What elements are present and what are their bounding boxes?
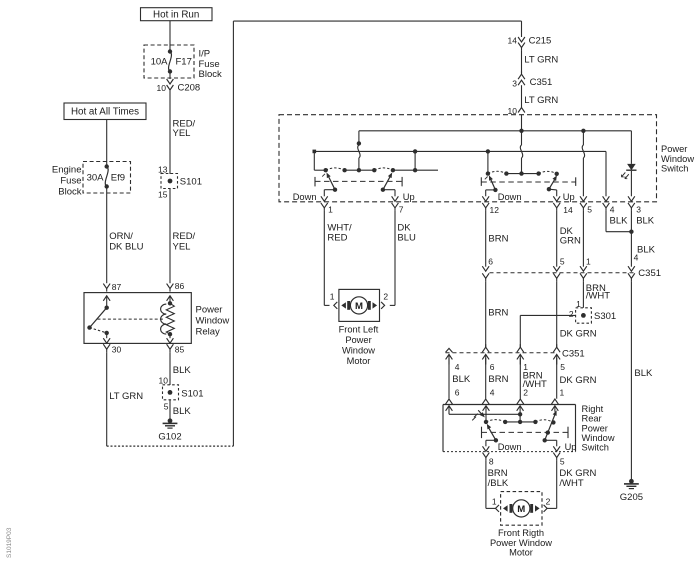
svg-text:5: 5 <box>560 457 565 467</box>
svg-text:6: 6 <box>455 387 460 397</box>
wire BRN from C351-6 to lower C351-6 <box>485 281 487 347</box>
power window relay K box <box>84 293 191 344</box>
wire BLK from S101 to ground G102 <box>169 400 171 421</box>
rear switch pin 8 connector <box>483 453 490 458</box>
svg-text:4: 4 <box>455 362 460 372</box>
relay pin 85 connector <box>167 344 174 349</box>
svg-text:C351: C351 <box>638 268 661 279</box>
svg-text:Down: Down <box>293 192 317 202</box>
svg-text:1: 1 <box>492 496 497 506</box>
left switch rocker bracket <box>314 177 316 187</box>
in-line connector C351 (lower dashed line) <box>446 352 558 354</box>
svg-text:Block: Block <box>199 69 222 80</box>
svg-text:BLK: BLK <box>173 365 192 376</box>
switch pin 1 connector <box>321 203 328 208</box>
svg-text:BRN: BRN <box>488 234 508 245</box>
wire DK GRN pin14 to C351 pin 5 <box>556 211 558 267</box>
wire BRN pin12 to C351 pin 6 <box>485 211 487 267</box>
svg-text:4: 4 <box>490 387 495 397</box>
svg-text:G205: G205 <box>620 492 643 503</box>
svg-text:GRN: GRN <box>560 236 581 247</box>
svg-text:4: 4 <box>610 205 615 215</box>
svg-text:BRN: BRN <box>488 374 508 385</box>
wire: line2 right end down to switch pin 4 <box>605 151 607 196</box>
relay coil (pin 86 to pin 85) <box>167 296 174 301</box>
relay actuation dashed link <box>98 318 165 320</box>
svg-text:86: 86 <box>175 281 185 291</box>
left switch Up wiper <box>383 176 391 190</box>
svg-text:Power: Power <box>661 144 687 154</box>
svg-text:Window: Window <box>661 154 694 164</box>
svg-text:10A: 10A <box>151 56 169 67</box>
svg-text:Down: Down <box>498 442 522 452</box>
svg-text:BLK: BLK <box>634 368 653 379</box>
rear switch pin 4 wire to contact <box>483 406 490 411</box>
wire: line2 drop to right switch left contact <box>487 151 489 173</box>
wire LT GRN from relay pin 30 <box>106 352 108 446</box>
in-line connector C351 (upper dashed line) <box>490 272 635 274</box>
svg-text:YEL: YEL <box>173 241 191 252</box>
svg-text:6: 6 <box>490 362 495 372</box>
svg-text:Hot in Run: Hot in Run <box>153 9 199 20</box>
svg-text:Ef9: Ef9 <box>111 172 125 183</box>
svg-text:S101: S101 <box>180 176 202 187</box>
power window switch pin 10 entry <box>518 108 525 113</box>
bus line 1 (battery feed inside switch) <box>359 130 632 132</box>
svg-text:Down: Down <box>498 192 522 202</box>
rear switch Up wiper <box>545 412 556 440</box>
wire BLK pin3 to C351 pin 4 <box>630 211 632 267</box>
svg-text:4: 4 <box>634 252 639 262</box>
wire: line1 left drop to left switch center contact <box>358 131 360 144</box>
svg-text:S1019P03: S1019P03 <box>6 527 13 558</box>
switch pin 4 connector <box>603 203 610 208</box>
wire DK GRN from C351-5 to lower C351-5 <box>556 281 558 347</box>
svg-text:85: 85 <box>175 345 185 355</box>
svg-text:DK GRN: DK GRN <box>560 329 597 340</box>
svg-text:BLK: BLK <box>173 406 192 417</box>
svg-text:BLK: BLK <box>452 374 471 385</box>
svg-text:Switch: Switch <box>582 443 609 453</box>
rear switch feed wiper arrow <box>478 410 483 416</box>
svg-text:C215: C215 <box>529 35 552 46</box>
power source label: Hot at All Times <box>64 103 146 120</box>
svg-text:2: 2 <box>523 387 528 397</box>
rear switch rocker bracket <box>481 427 483 438</box>
svg-text:Block: Block <box>58 187 81 198</box>
svg-text:LT GRN: LT GRN <box>109 391 143 402</box>
LED illumination lamp in switch <box>630 131 632 164</box>
power source label: Hot in Run <box>141 8 213 21</box>
svg-text:10: 10 <box>157 83 167 93</box>
wire: top run to C215 <box>233 20 521 22</box>
connector C215 pin 14 <box>521 21 523 37</box>
wire LT GRN C351 to power window switch pin 10 <box>521 91 523 108</box>
svg-text:Power: Power <box>345 335 371 345</box>
svg-text:/WHT: /WHT <box>559 478 583 489</box>
wire: line2 drop at x=415 to row <box>414 151 416 170</box>
svg-text:Hot at All Times: Hot at All Times <box>71 107 139 118</box>
wire BLK from C351-4 to ground G205 <box>630 281 632 481</box>
svg-text:Rear: Rear <box>582 414 602 424</box>
wire BRN lower-C351-6 to rear switch pin 4 <box>485 358 487 399</box>
svg-text:30A: 30A <box>87 172 105 183</box>
svg-text:15: 15 <box>158 189 168 199</box>
relay switch contact (pin 87 to pin 30) <box>103 296 110 301</box>
wire DK GRN/WHT pin5 to front right motor <box>556 461 558 509</box>
svg-text:5: 5 <box>164 401 169 411</box>
node: junction of pin4 and pin3 BLK wires <box>629 230 633 234</box>
svg-text:5: 5 <box>587 205 592 215</box>
svg-text:1: 1 <box>586 256 591 266</box>
svg-text:5: 5 <box>560 362 565 372</box>
svg-text:1: 1 <box>560 387 565 397</box>
svg-text:5: 5 <box>560 256 565 266</box>
right switch rocker bracket <box>480 177 482 186</box>
svg-text:13: 13 <box>158 164 168 174</box>
wire LT GRN C215 to C351 <box>521 51 523 74</box>
svg-text:S301: S301 <box>594 311 616 322</box>
lower C351 pin 6 <box>482 347 489 352</box>
svg-text:7: 7 <box>399 205 404 215</box>
svg-text:14: 14 <box>563 205 573 215</box>
svg-text:10: 10 <box>159 375 169 385</box>
wire DK BLU pin7 to front left motor <box>394 211 396 306</box>
switch pin 5 connector <box>580 203 587 208</box>
right rear power window switch box <box>443 404 576 406</box>
svg-text:Front Left: Front Left <box>339 325 379 335</box>
lower C351 pin 5 <box>553 347 560 352</box>
wire: line1 drop to switch pin 5 <box>582 131 584 145</box>
left switch Down wiper <box>328 176 335 190</box>
svg-text:Engine: Engine <box>52 164 82 175</box>
rear switch pin 2 wire to center contact <box>517 406 524 411</box>
wire: bottom run of LT GRN circuit <box>107 445 234 447</box>
lower C351 pin 1 <box>517 347 524 352</box>
svg-text:LT GRN: LT GRN <box>524 95 558 106</box>
svg-text:G102: G102 <box>158 431 181 442</box>
wire: line2 left end down to left switch row <box>313 151 315 170</box>
right window switch contact row <box>486 171 490 175</box>
node: line2 junction at x=415 <box>413 149 417 153</box>
svg-text:6: 6 <box>488 256 493 266</box>
right switch Down wiper <box>490 179 495 190</box>
wire BRN/WHT from C351-1 to splice S301 <box>582 281 584 308</box>
svg-text:2: 2 <box>383 292 388 302</box>
wire BRN/WHT lower-C351-1 to rear switch pin 2 <box>519 358 521 399</box>
relay pin 86 connector <box>167 284 174 289</box>
wire BRN/WHT from S301 to lower C351 pin 1 <box>520 314 575 316</box>
rear switch contact row <box>484 420 488 424</box>
svg-text:M: M <box>355 301 363 312</box>
svg-text:Window: Window <box>196 315 230 326</box>
svg-text:Power: Power <box>196 304 223 315</box>
svg-text:1: 1 <box>330 292 335 302</box>
svg-text:2: 2 <box>569 309 574 319</box>
svg-text:Relay: Relay <box>196 326 221 337</box>
svg-text:DK BLU: DK BLU <box>109 241 143 252</box>
wire: right riser of LT GRN circuit <box>232 21 234 446</box>
wire: Hot at All Times to Engine fuse block <box>106 120 108 167</box>
node: line2 junction at x=488 <box>486 149 490 153</box>
svg-text:C351: C351 <box>562 348 585 359</box>
svg-text:Right: Right <box>582 404 604 414</box>
svg-text:S101: S101 <box>181 388 203 399</box>
svg-text:Front Rigth: Front Rigth <box>498 528 544 538</box>
svg-text:/BLK: /BLK <box>488 478 509 489</box>
fuse Ef9 30A in Engine Fuse Block (dashed box) <box>83 162 131 194</box>
svg-text:C208: C208 <box>178 83 201 94</box>
wire pin5 to C351 pin 1 <box>582 211 584 267</box>
right switch Up wiper <box>549 179 555 189</box>
svg-text:Motor: Motor <box>347 356 371 366</box>
wire DK GRN lower-C351-5 to rear switch pin 1 <box>556 358 558 399</box>
svg-text:BLU: BLU <box>397 232 416 243</box>
wire BRN/BLK pin8 to front right motor <box>485 461 487 509</box>
node: pin10 junction on line 1 <box>519 129 523 133</box>
wire RED/YEL from C208 to S101 <box>169 93 171 174</box>
svg-text:3: 3 <box>512 78 517 88</box>
svg-text:3: 3 <box>636 205 641 215</box>
svg-text:Switch: Switch <box>661 163 688 173</box>
svg-text:YEL: YEL <box>173 128 191 139</box>
svg-text:BLK: BLK <box>610 215 629 226</box>
svg-text:LT GRN: LT GRN <box>524 54 558 65</box>
splice S301 (dashed box) <box>576 308 592 323</box>
svg-text:Window: Window <box>582 433 615 443</box>
lower C351 pin 4 <box>446 348 453 352</box>
node: junction on line 1 to pin 5 drop <box>581 129 585 133</box>
svg-text:BRN: BRN <box>488 308 508 319</box>
svg-text:Motor: Motor <box>509 547 533 557</box>
svg-text:Fuse: Fuse <box>60 176 81 187</box>
svg-text:12: 12 <box>490 205 500 215</box>
svg-text:8: 8 <box>489 457 494 467</box>
bus line 2 (common inside switch) <box>314 150 606 152</box>
svg-text:Window: Window <box>342 346 375 356</box>
connector C208 pin 10 <box>169 72 171 80</box>
svg-text:1: 1 <box>328 205 333 215</box>
rear switch pin 5 connector <box>553 453 560 458</box>
node: pin6 feed junction with pin 2 wire <box>518 412 522 416</box>
svg-text:Power: Power <box>582 423 608 433</box>
rear switch pin 1 feed <box>552 406 559 411</box>
svg-text:F17: F17 <box>176 56 192 67</box>
svg-text:Up: Up <box>563 192 575 202</box>
svg-text:BLK: BLK <box>636 215 655 226</box>
power window switch assembly (dashed box) <box>279 115 657 202</box>
svg-text:M: M <box>517 504 525 515</box>
svg-text:87: 87 <box>112 282 122 292</box>
left window switch contact row <box>324 168 328 172</box>
rear switch Down wiper <box>488 427 496 440</box>
ground G102 <box>168 418 173 423</box>
ground G205 <box>629 479 634 484</box>
svg-text:C351: C351 <box>530 77 553 88</box>
relay pin 87 connector <box>103 284 110 289</box>
switch pin 12 connector <box>482 203 489 208</box>
svg-text:30: 30 <box>112 345 122 355</box>
wire RED/YEL from S101 to relay pin 86 <box>169 189 171 284</box>
wire BLK lower-C351-4 to rear switch pin 6 <box>448 358 450 399</box>
wire: Hot in Run to I/P fuse block <box>169 21 171 52</box>
fuse F17 10A in I/P Fuse Block (dashed box) <box>144 45 194 78</box>
switch pin 7 connector <box>392 203 399 208</box>
switch pin 3 connector <box>628 203 635 208</box>
connector C351 pin 3 <box>518 74 525 79</box>
wire WHT/RED pin1 to front left motor <box>323 211 325 306</box>
svg-text:14: 14 <box>508 36 518 46</box>
rear switch pin 6 feed <box>446 406 453 411</box>
svg-text:Up: Up <box>565 442 577 452</box>
svg-text:Up: Up <box>403 192 415 202</box>
svg-text:BLK: BLK <box>637 245 656 256</box>
svg-text:DK GRN: DK GRN <box>560 375 597 386</box>
switch pin 14 connector <box>553 203 560 208</box>
wire BLK pin4 joining pin3 <box>605 211 607 232</box>
wire ORN/DK BLU from fuse to relay pin 87 <box>106 187 108 284</box>
svg-text:2: 2 <box>546 496 551 506</box>
svg-text:RED: RED <box>327 232 347 243</box>
relay pin 30 connector <box>103 344 110 349</box>
wire: pin10 drop to right switch center contact <box>521 131 523 145</box>
svg-text:/WHT: /WHT <box>586 291 610 302</box>
wire BLK from relay pin 85 to S101 <box>169 352 171 385</box>
